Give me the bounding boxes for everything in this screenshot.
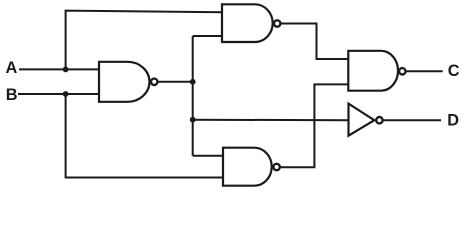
svg-text:D: D [447, 112, 459, 130]
svg-text:A: A [6, 59, 18, 77]
wire U4 output to U3 bottom input [280, 84, 348, 167]
nand gate U1 bubble [151, 79, 157, 85]
wire node to inverter U5 input [193, 119, 349, 122]
wire node to U2 bottom input [193, 35, 222, 37]
wire U3 output to C [406, 70, 443, 72]
nand gate U2 bubble [274, 20, 280, 26]
inverter U5 bubble [376, 117, 382, 123]
wire node to U4 top input [193, 155, 223, 157]
wire A input to U1 [19, 68, 99, 70]
junction dot on B [63, 91, 69, 97]
junction dot at U1 output node [190, 79, 196, 85]
wire B branch to U4 bottom input [66, 94, 223, 178]
nand gate U1 body [99, 62, 150, 102]
wire U2 output to U3 top input [281, 24, 349, 60]
wire B input to U1 [18, 93, 99, 95]
svg-text:C: C [448, 62, 460, 80]
svg-text:B: B [6, 86, 18, 104]
inverter U5 triangle [349, 104, 375, 136]
nand gate U2 body [222, 4, 273, 42]
wire A branch to U2 top input [66, 11, 223, 70]
junction dot on A [63, 67, 69, 73]
nand gate U3 bubble [399, 68, 405, 74]
nand gate U4 bubble [273, 164, 279, 170]
nand gate U4 body [223, 148, 272, 186]
junction dot on bus to inverter [190, 117, 196, 123]
nand gate U3 body [348, 51, 398, 91]
wire node vertical bus [192, 36, 194, 156]
wire U1 output to node [158, 81, 193, 83]
wire U5 output to D [383, 119, 441, 121]
